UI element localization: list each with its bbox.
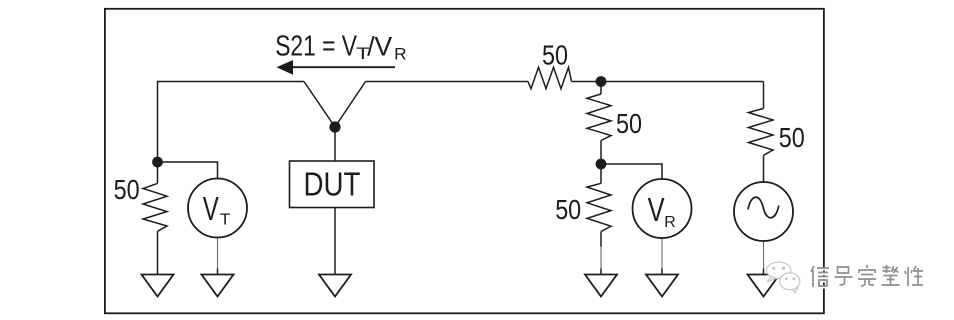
svg-text:50: 50	[555, 194, 581, 225]
svg-text:50: 50	[616, 108, 642, 139]
svg-text:50: 50	[542, 40, 568, 71]
svg-text:50: 50	[114, 174, 140, 205]
svg-text:/V: /V	[367, 31, 392, 61]
svg-text:50: 50	[779, 122, 805, 153]
svg-text:V: V	[648, 191, 665, 228]
svg-text:T: T	[220, 212, 231, 229]
svg-text:DUT: DUT	[304, 165, 361, 202]
svg-text:V: V	[203, 190, 219, 227]
svg-text:R: R	[664, 214, 676, 231]
svg-text:R: R	[394, 45, 407, 63]
svg-text:S21 = V: S21 = V	[275, 30, 357, 62]
